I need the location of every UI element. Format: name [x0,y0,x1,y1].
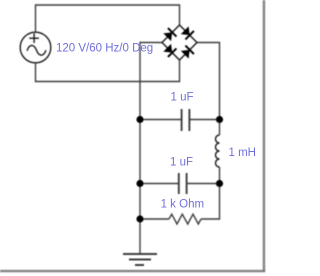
resistor R1 zigzag [169,214,201,224]
diode D2 top-right (points to right vertex) [180,26,193,39]
junction node cap1-left [136,116,143,123]
ac source V1 circle [20,32,51,63]
capacitor C1 plates [182,109,190,131]
wire source bottom to bridge bottom [36,60,180,82]
junction node cap1-right [216,116,223,123]
window edge shadow right [263,0,265,272]
svg-text:1 mH: 1 mH [229,147,256,159]
capacitor C2 plates [179,173,187,194]
inductor L1 coil [216,135,220,167]
junction node cap2-left [136,180,143,187]
bridge diamond outline [162,25,197,60]
svg-text:1 uF: 1 uF [171,92,194,104]
svg-text:1 k Ohm: 1 k Ohm [161,199,204,211]
wire bridge left vertex to left rail [140,43,162,254]
wire source top to bridge top [36,5,180,32]
junction node cap2-right [216,180,223,187]
wire cap1 left lead [140,119,182,121]
wire cap2 right lead [187,183,220,185]
wire resistor right lead up to cap2 node [201,184,220,220]
wire cap1 right lead [189,119,219,121]
ac source plus sign [29,33,39,43]
wire cap2 left lead [140,183,179,185]
wire resistor left lead [140,218,169,220]
junction node resistor-left [136,215,143,222]
svg-text:120 V/60 Hz/0 Deg: 120 V/60 Hz/0 Deg [56,43,153,55]
wire bridge right vertex to right rail [197,43,220,120]
window edge shadow bottom [0,270,265,272]
wire right rail cap1 to inductor [219,120,221,136]
diode D3 bottom-left (points to bottom vertex) [163,43,176,56]
ac source sine wave [27,45,46,55]
wire inductor bottom to cap2 node [219,167,221,184]
ground symbol [123,254,157,265]
diode D1 top-left (points to top vertex) [163,28,176,41]
svg-text:1 uF: 1 uF [170,157,193,169]
diode D4 bottom-right (points to right vertex) [180,46,193,59]
